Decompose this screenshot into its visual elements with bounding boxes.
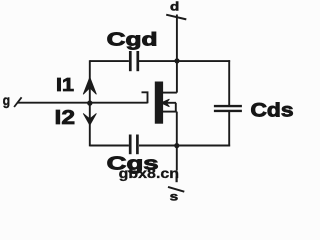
terminal d tick [166, 15, 186, 20]
svg-text:I2: I2 [55, 107, 76, 129]
wire left vertical [89, 60, 91, 146]
wire drain vertical [176, 15, 178, 93]
wire source vertical [176, 112, 178, 171]
svg-text:s: s [170, 190, 179, 203]
wire top rail left [90, 60, 129, 62]
svg-text:Cds: Cds [251, 100, 294, 121]
wire source dash [176, 176, 178, 182]
wire Cds bottom lead [228, 112, 230, 147]
node gate junction [87, 100, 92, 105]
svg-text:d: d [170, 2, 179, 14]
svg-text:I1: I1 [56, 75, 74, 95]
transistor Q1 source lead [161, 111, 177, 113]
wire Cds top lead [228, 60, 230, 105]
transistor Q1 body arrow [161, 99, 170, 107]
transistor Q1 drain lead [163, 92, 177, 94]
current arrow I2 [83, 113, 96, 125]
wire body to source [175, 103, 177, 112]
svg-text:g: g [3, 93, 11, 108]
capacitor Cgd plates [130, 51, 138, 71]
wire bottom rail right [139, 145, 230, 147]
svg-text:gbx8.cn: gbx8.cn [119, 165, 180, 181]
svg-text:Cgd: Cgd [107, 29, 158, 50]
terminal g tick [14, 97, 22, 107]
wire bottom rail left [90, 145, 129, 147]
capacitor Cgs plates [130, 135, 137, 155]
wire top rail right [139, 60, 230, 62]
current arrow I1 [83, 77, 96, 94]
terminal s tick [168, 187, 184, 192]
capacitor Cds plates [214, 106, 242, 111]
node source junction [174, 143, 179, 148]
transistor Q1 gate hook [142, 92, 148, 103]
wire source dash dot [176, 173, 178, 175]
node drain junction [174, 58, 179, 63]
transistor Q1 body shaft [166, 102, 176, 104]
transistor Q1 channel bar [155, 82, 163, 124]
wire gate lead [18, 102, 148, 104]
